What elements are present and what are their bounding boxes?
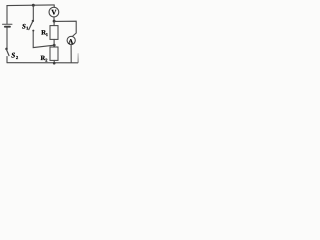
wire R2 bottom lead: [53, 60, 55, 62]
wire S1 branch upper: [32, 6, 34, 20]
voltmeter lead lower: [53, 17, 55, 20]
resistor R2 box: [50, 47, 58, 60]
wire left-upper: [6, 6, 8, 24]
svg-text:1: 1: [26, 26, 28, 31]
switch S2: [5, 48, 9, 56]
wire node to ammeter branch: [55, 21, 77, 36]
svg-text:2: 2: [45, 57, 47, 62]
battery cell: [3, 24, 13, 26]
junction node top (S1 branch tap): [32, 4, 35, 7]
wire S1 branch lower: [33, 31, 54, 47]
resistor R1 box: [50, 26, 58, 40]
wire between R1 R2: [53, 39, 55, 47]
voltmeter V circle: [49, 7, 59, 17]
svg-text:1: 1: [46, 32, 48, 37]
wire left-mid: [6, 28, 8, 48]
wire top to voltmeter: [53, 5, 55, 7]
junction node under voltmeter: [53, 20, 56, 23]
wire bottom: [7, 62, 78, 64]
wire left-lower: [6, 57, 8, 63]
svg-text:V: V: [51, 9, 56, 17]
ammeter A circle: [67, 36, 75, 44]
junction node bottom (R2 to bottom wire): [53, 62, 56, 65]
wire right faint stub: [76, 54, 79, 63]
junction node mid (between R1 and R2): [53, 44, 56, 47]
svg-text:S: S: [11, 52, 15, 60]
svg-text:A: A: [68, 39, 73, 46]
wire top: [7, 5, 54, 6]
switch S1: [29, 20, 35, 32]
wire R1 top lead: [53, 23, 55, 26]
wire ammeter lead lower: [70, 45, 72, 63]
